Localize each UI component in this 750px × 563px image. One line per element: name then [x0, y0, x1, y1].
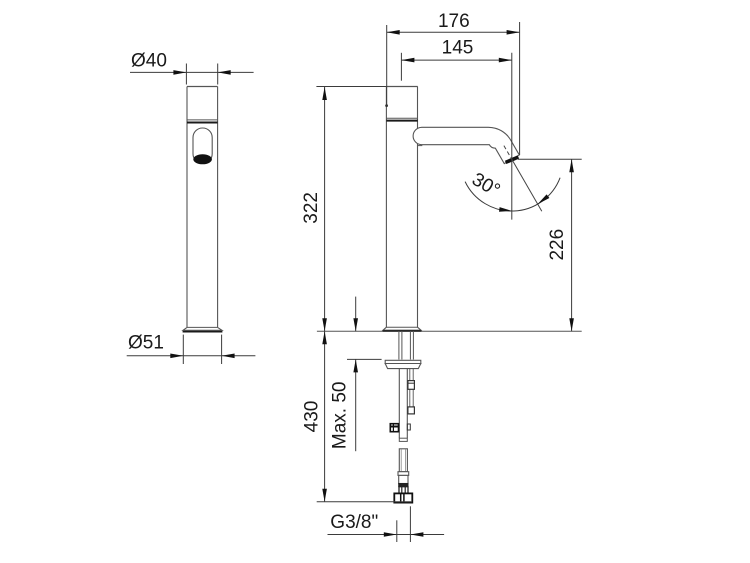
svg-text:Ø40: Ø40 [131, 51, 167, 72]
svg-text:Max. 50: Max. 50 [329, 382, 350, 450]
svg-text:176: 176 [438, 11, 470, 32]
svg-text:G3/8": G3/8" [330, 512, 378, 533]
svg-text:226: 226 [547, 229, 568, 261]
svg-text:322: 322 [301, 192, 322, 224]
svg-text:430: 430 [301, 401, 322, 433]
svg-text:Ø51: Ø51 [128, 333, 164, 354]
svg-text:145: 145 [442, 38, 474, 59]
